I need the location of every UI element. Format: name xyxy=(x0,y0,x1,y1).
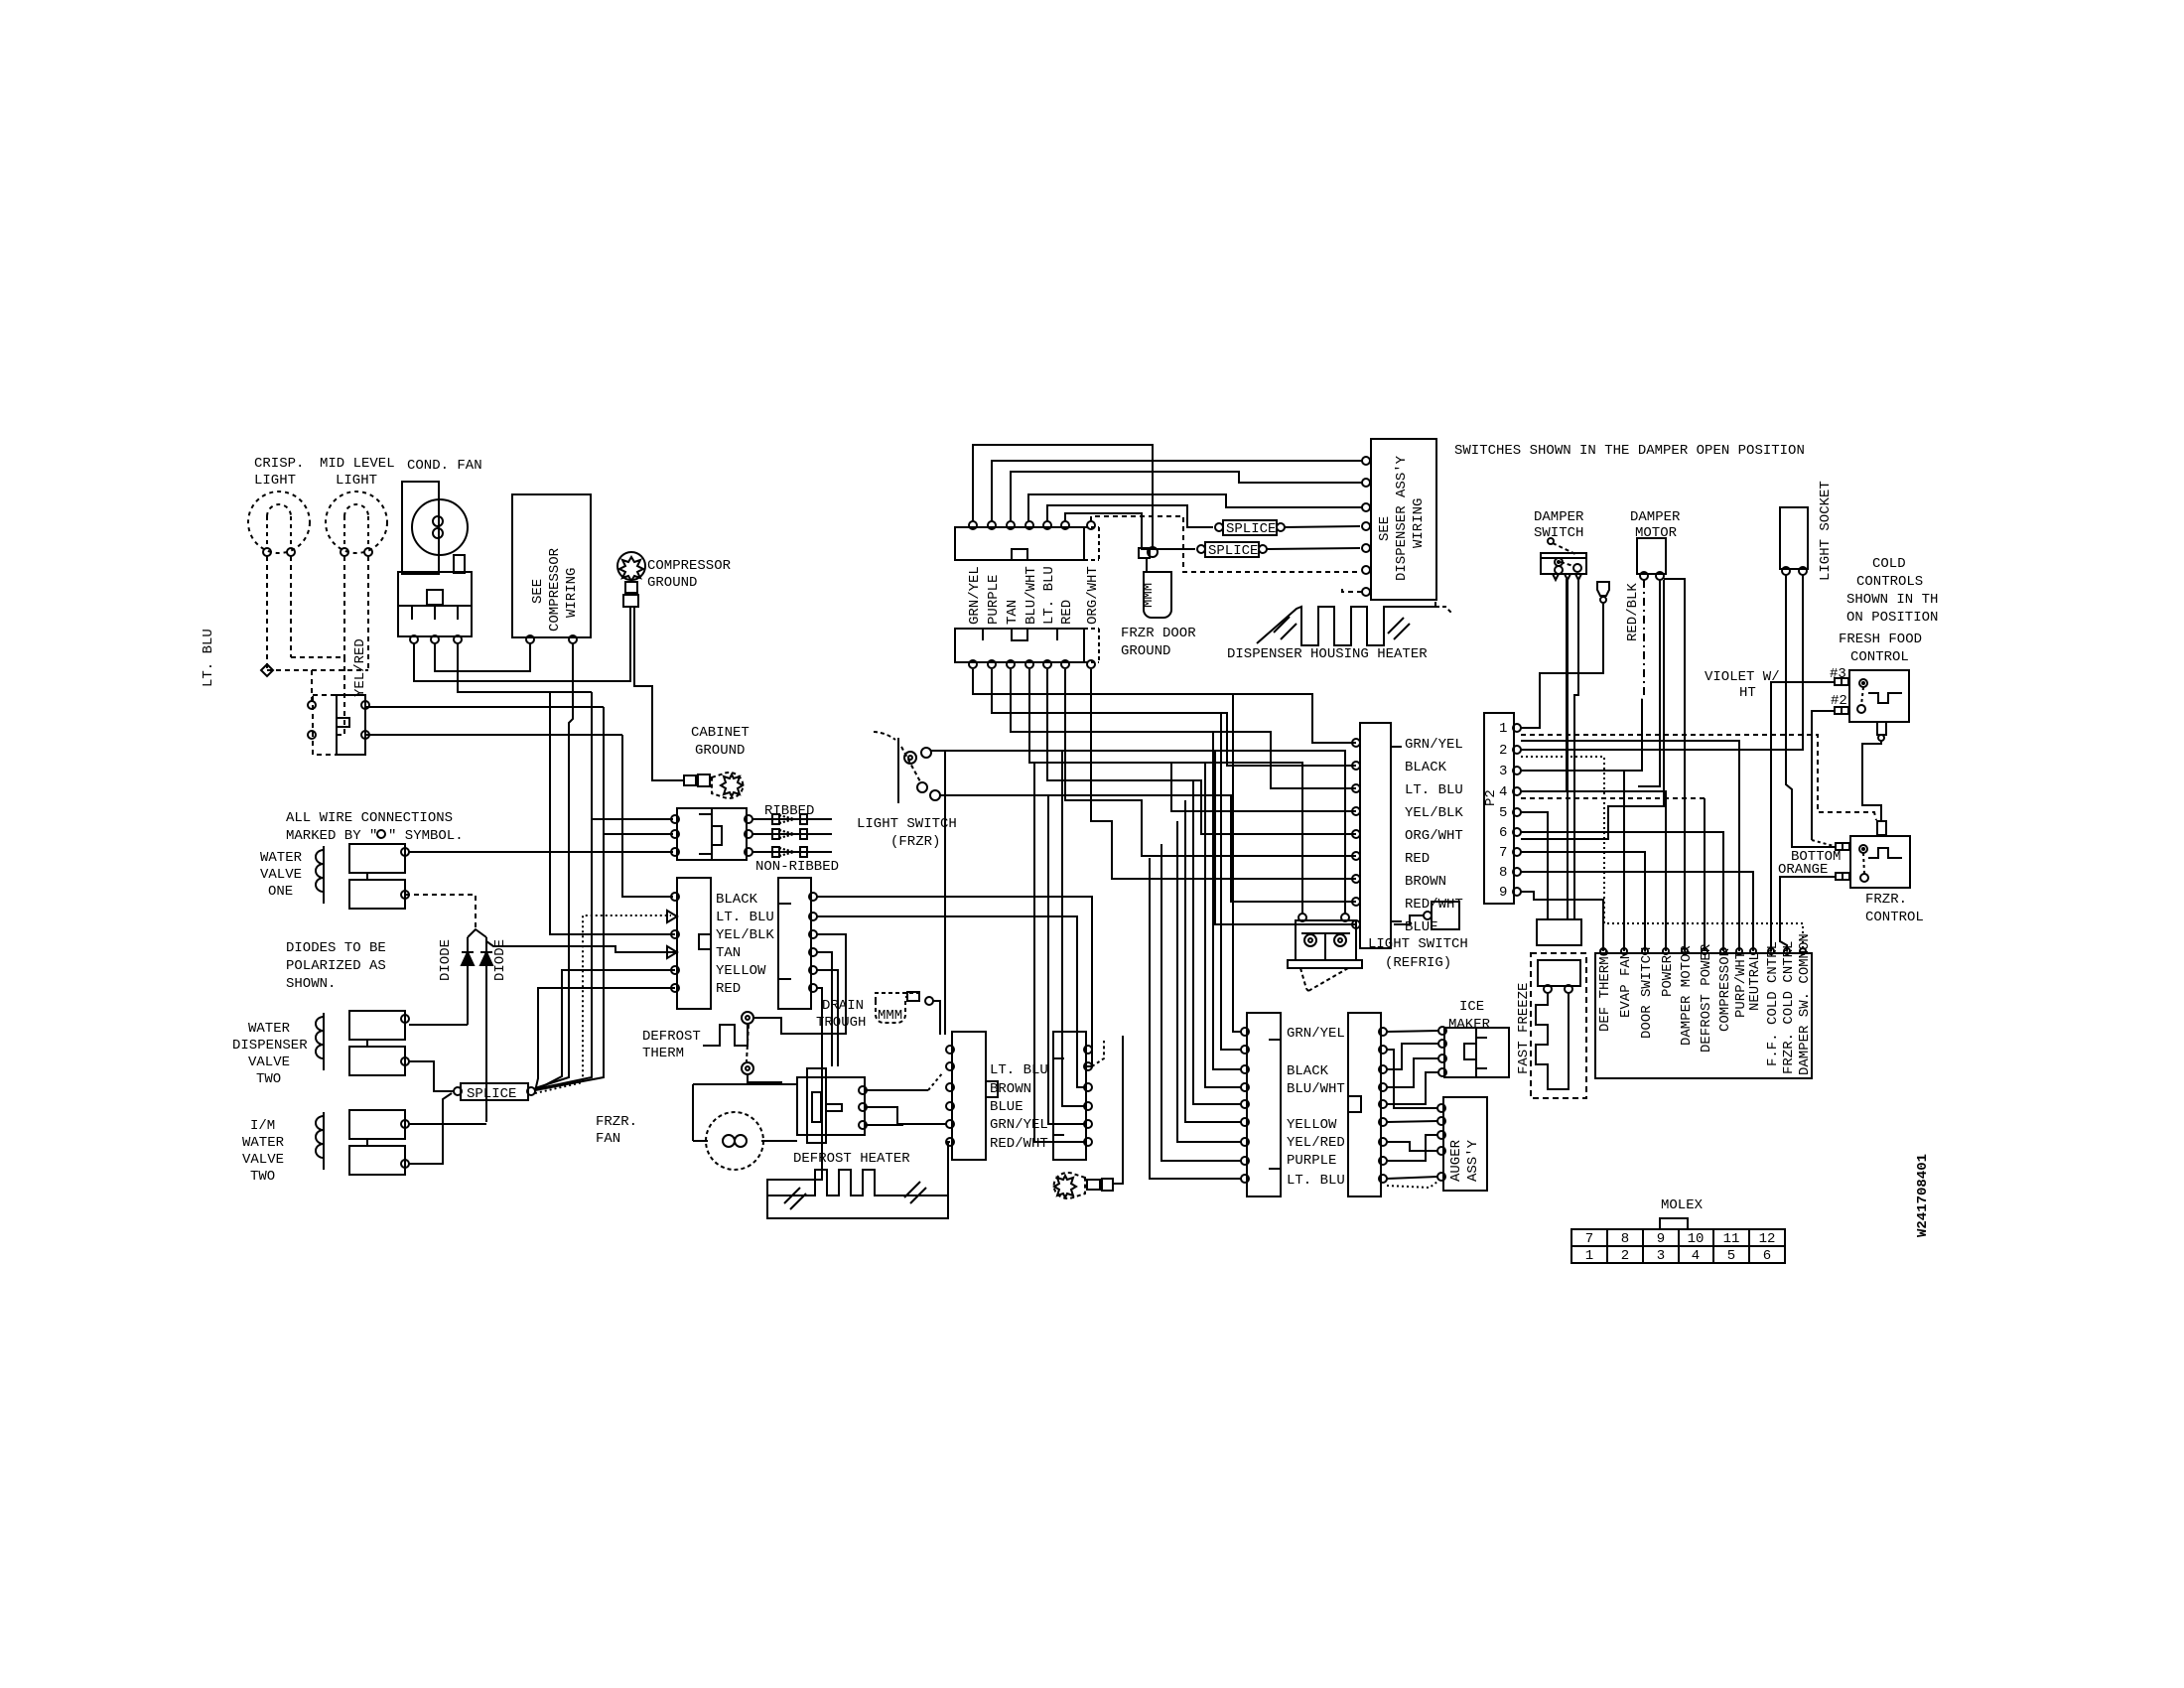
wire dashed bus y662 xyxy=(291,656,344,658)
wire org/wht dashed route xyxy=(1091,516,1360,572)
freezer door conn pin 2 xyxy=(1241,1046,1249,1054)
svg-text:TROUGH: TROUGH xyxy=(816,1015,866,1031)
svg-text:COLD: COLD xyxy=(1872,556,1906,572)
dispenser bottom pin 6 xyxy=(1061,660,1069,668)
wire diode split xyxy=(468,929,486,937)
freezer right conn pin 7 xyxy=(1379,1138,1387,1146)
freezer door conn pin 1 xyxy=(1241,1028,1249,1036)
svg-text:DIODES TO BE: DIODES TO BE xyxy=(286,940,386,956)
wire red to splice B xyxy=(1065,513,1195,549)
svg-text:ORANGE: ORANGE xyxy=(1778,862,1828,878)
fan relay pin 1 xyxy=(410,635,418,643)
frzr pin2 stub xyxy=(1836,873,1843,880)
svg-text:W241708401: W241708401 xyxy=(1915,1154,1931,1237)
ice maker box xyxy=(1444,1028,1509,1077)
ribbed pin R1 xyxy=(745,815,752,823)
crisper light bulb xyxy=(248,492,310,553)
wire def thermo to p2-9 xyxy=(1521,892,1603,951)
crisp light switch box xyxy=(313,695,337,755)
wire crisper right dashed xyxy=(290,556,292,657)
svg-text:RED: RED xyxy=(716,981,741,997)
svg-text:WIRING: WIRING xyxy=(1411,498,1427,548)
control board pin DAMPER MOTOR xyxy=(1682,948,1688,954)
wire fdr to auger2 xyxy=(1387,1121,1437,1122)
wire evap feed 1095 xyxy=(817,916,1084,1087)
wire frzr switch to red/wht pin xyxy=(1048,795,1356,902)
wire fdr to ice2 xyxy=(1387,1044,1438,1069)
svg-text:POWER: POWER xyxy=(1660,954,1676,997)
evap right pin 2 xyxy=(1084,1062,1092,1070)
svg-text:COMPRESSOR: COMPRESSOR xyxy=(1717,947,1733,1032)
dispenser bottom pin 4 xyxy=(1025,660,1033,668)
damper motor pin1 xyxy=(1640,572,1648,580)
svg-text:BLU/WHT: BLU/WHT xyxy=(1287,1081,1345,1097)
wire valve2 to splice xyxy=(409,1061,454,1091)
wire evap feed 1150 xyxy=(1034,763,1084,1142)
wire diode out to tan pin xyxy=(486,941,675,952)
freezer right conn pin 9 xyxy=(1379,1175,1387,1183)
splice box A xyxy=(1223,520,1277,535)
dispenser housing heater element xyxy=(1257,602,1435,645)
svg-text:DOOR SWITCH: DOOR SWITCH xyxy=(1639,947,1655,1039)
wire 7pinR pin4 route xyxy=(817,952,832,1066)
svg-text:AUGER: AUGER xyxy=(1448,1139,1464,1182)
svg-text:DEFROST HEATER: DEFROST HEATER xyxy=(793,1151,910,1167)
crisp light switch pin R2 xyxy=(361,731,369,739)
svg-text:RED: RED xyxy=(1059,600,1075,625)
evap right pin 5 xyxy=(1084,1120,1092,1128)
7pin left pin2 arrow xyxy=(667,911,677,922)
wire evap dashed link xyxy=(1092,1041,1104,1066)
svg-text:CABINET: CABINET xyxy=(691,725,750,741)
ribbed pin L1 xyxy=(671,815,679,823)
cabinet ground lug xyxy=(684,775,696,785)
diode D2 xyxy=(480,952,492,965)
freezer right conn pin 2 xyxy=(1379,1046,1387,1054)
splice left pin R xyxy=(527,1087,535,1095)
svg-text:ALL WIRE CONNECTIONS: ALL WIRE CONNECTIONS xyxy=(286,810,453,826)
wire switchR2 to bus627 xyxy=(365,734,622,736)
dispenser top pin 3 xyxy=(1007,521,1015,529)
wire damper switch pin1 down xyxy=(1567,580,1569,919)
svg-text:1: 1 xyxy=(1499,721,1507,737)
splice A pin L xyxy=(1215,523,1223,531)
svg-text:ORG/WHT: ORG/WHT xyxy=(1405,828,1463,844)
dispenser bottom pin 5 xyxy=(1043,660,1051,668)
wire freezer-door feed 6 xyxy=(1185,800,1241,1122)
svg-text:(REFRIG): (REFRIG) xyxy=(1385,955,1451,971)
water valve two pin bottom xyxy=(401,1057,409,1065)
7pin left pin5 xyxy=(671,966,679,974)
wire lt.blu to splice A xyxy=(1047,505,1213,527)
svg-text:VALVE: VALVE xyxy=(242,1152,284,1168)
svg-text:FRZR. COLD CNTRL: FRZR. COLD CNTRL xyxy=(1781,941,1797,1074)
i/m water valve coil+boxes xyxy=(323,1112,325,1170)
svg-text:ON POSITION: ON POSITION xyxy=(1846,610,1938,626)
auger pin 4 xyxy=(1437,1147,1445,1155)
svg-text:3: 3 xyxy=(1499,764,1507,779)
evap left pin 3 xyxy=(946,1083,954,1091)
wire freezer-door feed 3 xyxy=(1213,732,1241,1069)
wire crisper left dashed xyxy=(266,556,268,670)
control board pin FRZR. COLD CNTRL xyxy=(1784,948,1790,954)
wire fdr dotted xyxy=(1387,1182,1437,1188)
dispenser assy pin 6 xyxy=(1362,566,1370,574)
freezer door conn pin 3 xyxy=(1241,1065,1249,1073)
wire dispenser-b pin6 route xyxy=(1065,669,1356,856)
svg-text:MOLEX: MOLEX xyxy=(1661,1197,1704,1213)
svg-text:GRN/YEL: GRN/YEL xyxy=(990,1117,1048,1133)
evap right pin 1 xyxy=(1084,1046,1092,1054)
svg-text:12: 12 xyxy=(1759,1231,1776,1247)
dispenser bottom pin 1 xyxy=(969,660,977,668)
refrig conn pin 4 xyxy=(1352,807,1360,815)
crisp light switch pin L2 xyxy=(308,731,316,739)
wire p2-1 dashed xyxy=(1521,735,1876,820)
svg-text:RED/WHT: RED/WHT xyxy=(1405,897,1463,913)
freezer door conn pin 4 xyxy=(1241,1083,1249,1091)
wire evap feed 1114 xyxy=(1062,751,1084,1106)
svg-text:BLACK: BLACK xyxy=(716,892,758,908)
svg-text:F.F. COLD CNTRL: F.F. COLD CNTRL xyxy=(1765,941,1781,1066)
svg-text:MMM: MMM xyxy=(1141,583,1157,608)
svg-text:DISPENSER ASS'Y: DISPENSER ASS'Y xyxy=(1394,455,1410,581)
wire yel/blk bus xyxy=(550,692,675,934)
svg-text:BROWN: BROWN xyxy=(990,1081,1031,1097)
svg-text:TAN: TAN xyxy=(1005,600,1021,625)
ice maker pin4 xyxy=(1438,1068,1446,1076)
molex table xyxy=(1571,1229,1785,1263)
damper switch pin wedges xyxy=(1553,574,1559,580)
auger pin 2 xyxy=(1437,1117,1445,1125)
wire purp/wht run xyxy=(1521,741,1739,951)
wire diode1 to valve2 xyxy=(409,1024,468,1026)
evap left pin 6 xyxy=(946,1138,954,1146)
svg-text:LT. BLU: LT. BLU xyxy=(1287,1173,1345,1189)
freezer right conn pin 6 xyxy=(1379,1118,1387,1126)
wire fdr to ice1 xyxy=(1387,1031,1438,1032)
svg-text:LT. BLU: LT. BLU xyxy=(990,1062,1048,1078)
frzr control internals xyxy=(1859,845,1867,853)
7pin right pin6 xyxy=(809,984,817,992)
molex tab xyxy=(1660,1218,1688,1229)
7pin right pin5 xyxy=(809,966,817,974)
svg-text:DAMPER SW. COMMON: DAMPER SW. COMMON xyxy=(1797,933,1813,1075)
wire freezer-door feed 8 xyxy=(1161,844,1241,1161)
water valve two pin top xyxy=(401,1015,409,1023)
svg-text:GRN/YEL: GRN/YEL xyxy=(967,566,983,625)
svg-text:YEL/BLK: YEL/BLK xyxy=(716,927,774,943)
wire light socket pin1 down xyxy=(1786,575,1836,847)
svg-text:BLACK: BLACK xyxy=(1405,760,1447,775)
wire p2-2 route xyxy=(1521,574,1803,750)
crisp light switch pin R1 xyxy=(361,701,369,709)
svg-text:LT. BLU: LT. BLU xyxy=(1405,782,1463,798)
svg-text:4: 4 xyxy=(1499,784,1507,800)
svg-text:2: 2 xyxy=(1621,1248,1629,1264)
svg-text:6: 6 xyxy=(1763,1248,1771,1264)
svg-text:11: 11 xyxy=(1723,1231,1740,1247)
refrig conn pin 1 xyxy=(1352,739,1360,747)
wire door switch to p2-7 xyxy=(1521,852,1645,951)
wire blu/wht to assy pin3 xyxy=(1028,494,1363,521)
fast freeze inner box xyxy=(1538,960,1580,986)
wire blue pin feed xyxy=(1215,751,1356,924)
7pin right pin2 xyxy=(809,913,817,920)
svg-text:GROUND: GROUND xyxy=(1121,643,1170,659)
control board box xyxy=(1595,953,1812,1078)
svg-text:TAN: TAN xyxy=(716,945,741,961)
ff pin3 stub xyxy=(1835,678,1842,685)
evap left pin 1 xyxy=(946,1046,954,1054)
ice maker pin1 xyxy=(1438,1027,1446,1035)
svg-text:MAKER: MAKER xyxy=(1448,1017,1491,1033)
wire evap feed 1132 xyxy=(940,795,1084,1124)
refrig conn pin 3 xyxy=(1352,784,1360,792)
i/m valve pin top xyxy=(401,1120,409,1128)
see dispenser assy wiring box xyxy=(1371,439,1436,600)
dispenser assy dashed wire xyxy=(1342,588,1362,592)
light switch refrig pin2 xyxy=(1341,914,1349,921)
diode D1 xyxy=(462,952,474,965)
evap left pin 2 xyxy=(946,1062,954,1070)
wire heater pin2 right xyxy=(867,1107,946,1124)
svg-text:FRZR DOOR: FRZR DOOR xyxy=(1121,626,1196,641)
fast freeze dashed box xyxy=(1531,953,1586,1098)
evap notch xyxy=(986,1081,998,1097)
water dispenser valve two coil+boxes xyxy=(323,1013,325,1070)
wire fan loop xyxy=(693,1140,708,1142)
fan relay pin 2 xyxy=(431,635,439,643)
wire fdr to auger3 xyxy=(1387,1142,1437,1151)
light switch refrig base xyxy=(1288,960,1362,968)
refrig conn pin 7 xyxy=(1352,875,1360,883)
light socket box xyxy=(1780,507,1808,569)
refrig door connector box xyxy=(1360,723,1391,948)
svg-text:LT. BLU: LT. BLU xyxy=(716,910,774,925)
wire ff #2 left xyxy=(1812,711,1835,840)
control board pin PURP/WHT xyxy=(1736,948,1742,954)
svg-text:" SYMBOL.: " SYMBOL. xyxy=(388,828,464,844)
7pin left pin6 xyxy=(671,984,679,992)
control board pin DEF THERMO xyxy=(1600,948,1606,954)
svg-text:9: 9 xyxy=(1657,1231,1665,1247)
wire dispenser-b pin7 route xyxy=(1091,669,1356,879)
svg-text:VALVE: VALVE xyxy=(260,867,302,883)
svg-text:(FRZR): (FRZR) xyxy=(890,834,940,850)
wire freezer-door feed 1 xyxy=(1233,694,1241,1032)
evap right pin 6 xyxy=(1084,1138,1092,1146)
svg-text:1: 1 xyxy=(1585,1248,1593,1264)
drain trough symbol xyxy=(876,999,905,1023)
7pin left pin3 xyxy=(671,930,679,938)
wire bus x608 down xyxy=(535,707,604,1090)
frzr pin1 stub xyxy=(1836,843,1843,850)
freezer door connector right box xyxy=(1348,1013,1381,1196)
see compressor pin 2 xyxy=(569,635,577,643)
svg-text:NEUTRAL: NEUTRAL xyxy=(1747,952,1763,1011)
fast freeze pin2 xyxy=(1565,985,1572,993)
wire 7pinR pin3 route xyxy=(753,934,846,1034)
svg-text:GRN/YEL: GRN/YEL xyxy=(1287,1026,1345,1042)
7pin right pin3 xyxy=(809,930,817,938)
svg-text:MMM: MMM xyxy=(878,1008,902,1024)
dispenser assy pin 2 xyxy=(1362,479,1370,487)
defrost heater arrow right xyxy=(910,1188,926,1203)
refrig conn pin 2 xyxy=(1352,762,1360,770)
wire freezer-door feed 2 xyxy=(1221,713,1241,1050)
damper motor box xyxy=(1637,538,1666,574)
svg-text:COMPRESSOR: COMPRESSOR xyxy=(647,558,732,574)
svg-text:FRZR.: FRZR. xyxy=(1865,892,1907,908)
defrost therm symbol xyxy=(703,1024,748,1046)
refrig conn pin 5 xyxy=(1352,830,1360,838)
wire grn/yel to door ground xyxy=(973,445,1153,547)
wire valve1 to diodes dashed xyxy=(405,895,476,931)
wire heater pin3 right xyxy=(867,1124,903,1126)
wire 7pinR pin5 route xyxy=(817,970,838,1066)
wire bus x627 down xyxy=(622,735,673,897)
freezer right conn pin 5 xyxy=(1379,1100,1387,1108)
svg-text:SPLICE: SPLICE xyxy=(1226,521,1276,537)
wire therm to refrig switch run xyxy=(945,751,1345,1035)
freezer right conn pin 4 xyxy=(1379,1083,1387,1091)
control board pin EVAP FAN xyxy=(1621,948,1627,954)
evap left pin 5 xyxy=(946,1120,954,1128)
svg-text:SEE: SEE xyxy=(530,579,546,604)
node junction diamond xyxy=(261,664,273,676)
wire heater pin1 right xyxy=(867,1089,928,1091)
splice A pin R xyxy=(1277,523,1285,531)
refrig conn pin 8 xyxy=(1352,898,1360,906)
fan relay pin 3 xyxy=(454,635,462,643)
svg-text:YEL/RED: YEL/RED xyxy=(352,638,368,697)
wire relay3 to bus596 xyxy=(458,643,592,692)
svg-text:DIODE: DIODE xyxy=(438,939,454,981)
i/m valve pin bottom xyxy=(401,1160,409,1168)
frzr fan motor xyxy=(706,1112,763,1170)
dispenser connector top box xyxy=(955,527,1084,560)
light switch frzr symbol xyxy=(897,738,899,803)
frzr door ground symbol xyxy=(1144,572,1171,618)
crisp light switch pin L1 xyxy=(308,701,316,709)
7pin left pin1 xyxy=(671,893,679,901)
evap connector left box xyxy=(952,1032,986,1160)
cond fan tab xyxy=(454,555,465,573)
svg-text:8: 8 xyxy=(1621,1231,1629,1247)
wire fdr to auger1 xyxy=(1387,1050,1437,1108)
wire mid-right dashed xyxy=(367,556,369,670)
ribbed wire stub 2 xyxy=(752,833,832,835)
fast freeze pin1 xyxy=(1544,985,1552,993)
svg-text:LT. BLU: LT. BLU xyxy=(1041,566,1057,625)
svg-text:RED: RED xyxy=(1405,851,1430,867)
wire defrost power up xyxy=(1704,798,1706,951)
dispenser assy pin 3 xyxy=(1362,503,1370,511)
svg-text:DAMPER: DAMPER xyxy=(1534,509,1584,525)
wire fdr to ice4 xyxy=(1387,1072,1438,1104)
wire heater rail xyxy=(767,1142,950,1218)
svg-text:LIGHT: LIGHT xyxy=(336,473,377,489)
ice maker pin3 xyxy=(1438,1055,1446,1062)
defrost heater pin1 xyxy=(859,1086,867,1094)
svg-text:CRISP.: CRISP. xyxy=(254,456,304,472)
svg-text:DEFROST POWER: DEFROST POWER xyxy=(1699,943,1714,1053)
wire dispenser-b pin2 route xyxy=(992,669,1356,766)
dispenser top pin 7 xyxy=(1087,521,1095,529)
water valve one pin top xyxy=(401,848,409,856)
svg-text:RED/WHT: RED/WHT xyxy=(990,1136,1048,1152)
dispenser connector bottom box xyxy=(955,629,1084,662)
light switch refrig box xyxy=(1296,920,1356,960)
freezer door conn pin 8 xyxy=(1241,1157,1249,1165)
wire ribbed1 tap xyxy=(592,818,673,820)
svg-text:NON-RIBBED: NON-RIBBED xyxy=(755,859,839,875)
freezer right conn pin 1 xyxy=(1379,1028,1387,1036)
svg-text:DEF THERMO: DEF THERMO xyxy=(1597,948,1613,1032)
svg-text:7: 7 xyxy=(1499,845,1507,861)
svg-text:FRZR.: FRZR. xyxy=(596,1114,637,1130)
light switch refrig flap xyxy=(1300,968,1306,989)
svg-text:YEL/RED: YEL/RED xyxy=(1287,1135,1345,1151)
splice left pin L xyxy=(454,1087,462,1095)
wire relay1 to compr ground xyxy=(414,607,630,681)
cond fan motor circle xyxy=(412,499,468,555)
wire damper motor v2 xyxy=(1638,580,1660,786)
auger pin 1 xyxy=(1437,1104,1445,1112)
evap left pin 4 xyxy=(946,1102,954,1110)
svg-text:CONTROL: CONTROL xyxy=(1850,649,1909,665)
wire spliceB to assy xyxy=(1267,548,1360,549)
freezer right conn pin 3 xyxy=(1379,1065,1387,1073)
ribbed pin R2 xyxy=(745,830,752,838)
wire light socket pin2 down xyxy=(1802,575,1804,750)
svg-text:MID LEVEL: MID LEVEL xyxy=(320,456,395,472)
7pin right pin4 xyxy=(809,948,817,956)
svg-text:BLUE: BLUE xyxy=(1405,919,1438,935)
wire dispenser-b pin5 route xyxy=(1047,669,1356,834)
wire fdr to ice3 xyxy=(1387,1058,1438,1087)
ice maker pin2 xyxy=(1438,1040,1446,1048)
svg-text:CONTROL: CONTROL xyxy=(1865,910,1924,925)
wire dispenser-b pin3 route xyxy=(1011,669,1356,788)
svg-text:DAMPER: DAMPER xyxy=(1630,509,1681,525)
mid level light bulb xyxy=(326,492,387,553)
wire p2-2 dotted xyxy=(1521,757,1803,947)
svg-text:PURPLE: PURPLE xyxy=(986,575,1002,625)
svg-text:TWO: TWO xyxy=(256,1071,281,1087)
dispenser top pin 1 xyxy=(969,521,977,529)
fast freeze comb xyxy=(1536,993,1569,1089)
cond fan housing xyxy=(402,482,439,574)
wire fdr to auger5 xyxy=(1387,1177,1437,1179)
wire dashed to switch pin2 xyxy=(337,657,344,735)
svg-text:BLUE: BLUE xyxy=(990,1099,1024,1115)
ff pin2 stub xyxy=(1835,707,1842,714)
wire damper motor dashdot xyxy=(1642,580,1644,699)
svg-text:WATER: WATER xyxy=(248,1021,291,1037)
svg-text:DAMPER MOTOR: DAMPER MOTOR xyxy=(1679,945,1695,1046)
wire refrig blue to terminator xyxy=(1394,915,1424,924)
control board pin F.F. COLD CNTRL xyxy=(1768,948,1774,954)
svg-text:BLU/WHT: BLU/WHT xyxy=(1024,566,1039,625)
svg-text:WATER: WATER xyxy=(242,1135,285,1151)
svg-text:P2: P2 xyxy=(1483,789,1499,806)
wire lt.blu dotted xyxy=(535,915,671,1093)
wire dashed bus y675 xyxy=(267,669,368,671)
defrost heater pin3 xyxy=(859,1121,867,1129)
see compressor pin 1 xyxy=(526,635,534,643)
